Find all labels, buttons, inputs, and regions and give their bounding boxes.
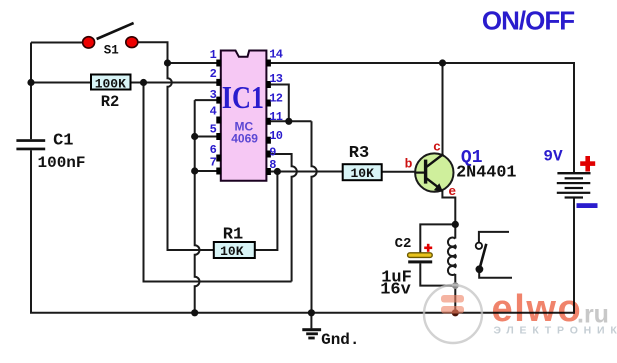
svg-text:13: 13 xyxy=(269,72,282,86)
wire pin 3 lead xyxy=(195,99,217,101)
wire relay coil top lead xyxy=(454,224,456,238)
capacitor C2 plus sign xyxy=(424,244,432,252)
wire pin 11 lead xyxy=(271,120,312,122)
wire relay contact bottom terminal xyxy=(479,273,512,278)
capacitor C2 negative plate xyxy=(408,260,432,263)
svg-text:8: 8 xyxy=(269,158,276,172)
node relay coil bottom / C2 (gray) xyxy=(452,282,459,289)
wire pin 13 lead down to pin 11 node xyxy=(271,85,289,122)
relay coil xyxy=(448,238,456,276)
wire relay coil bottom lead to ground rail xyxy=(454,274,456,313)
op-amp IC1 body (hex inverter MC4069) xyxy=(221,51,267,181)
relay contact lever xyxy=(480,244,487,269)
transistor Q1 base bar xyxy=(424,160,427,184)
wire pin 11 vertical with hop down to ground rail xyxy=(312,121,317,312)
watermark logo bars xyxy=(441,295,464,314)
pin number labels right 14-8 xyxy=(269,48,282,173)
node collector on top rail xyxy=(439,59,446,66)
wire S1 right lead to corner down to node A xyxy=(138,42,168,63)
transistor Q1 body xyxy=(415,153,453,191)
svg-text:C2: C2 xyxy=(395,236,412,252)
watermark logo circle xyxy=(424,285,482,343)
svg-text:C1: C1 xyxy=(53,132,73,151)
battery plus sign xyxy=(580,156,595,172)
svg-text:3: 3 xyxy=(210,88,217,102)
svg-text:12: 12 xyxy=(269,92,282,106)
node ground rail at ground symbol xyxy=(308,309,315,316)
wire pin 7 lead xyxy=(195,170,217,172)
node R2 right wire xyxy=(140,79,147,86)
wire pin 8 row to R3 xyxy=(271,171,343,173)
svg-text:7: 7 xyxy=(210,156,217,170)
wire top rail (pin 14 to battery) xyxy=(271,62,575,64)
wire R1 right lead up to pin 8 node xyxy=(255,172,278,251)
wire S1 vertical drop with hop over R2 wire, then to R1 left xyxy=(168,63,214,250)
svg-text:IC1: IC1 xyxy=(222,80,264,115)
svg-text:2N4401: 2N4401 xyxy=(456,164,516,183)
wire pin 9 lead and vertical with hop, to node row xyxy=(271,154,297,282)
capacitor C2 positive plate xyxy=(408,253,433,258)
wire left rail upper (S1 left to C1 top) xyxy=(30,43,32,140)
svg-text:100K: 100K xyxy=(95,76,126,91)
wire S1 left lead xyxy=(31,42,84,44)
wire C2 branch top xyxy=(420,224,455,252)
capacitor C1 plates xyxy=(16,139,45,150)
svg-text:ЭЛЕКТРОНИКА: ЭЛЕКТРОНИКА xyxy=(494,325,617,337)
node ground rail at pins357 bus xyxy=(191,309,198,316)
svg-text:b: b xyxy=(405,156,413,171)
node emitter / relay / C2 xyxy=(452,221,459,228)
transistor Q1 base lead xyxy=(416,172,425,174)
wire left rail lower (C1 bottom to ground rail corner) xyxy=(30,150,32,313)
resistor R1 body xyxy=(214,242,255,258)
wire R2 left lead xyxy=(31,82,91,84)
wire node A to IC pin 1 xyxy=(168,62,217,64)
node S1 to pin1 xyxy=(164,59,171,66)
wire R2 right lead to IC pin 2 xyxy=(131,82,217,84)
wire bottom ground rail xyxy=(30,312,574,314)
pin number labels left 1-7 xyxy=(210,48,217,170)
wire R3 right lead to transistor base xyxy=(382,171,416,173)
wire C2 branch bottom xyxy=(420,263,455,285)
svg-text:5: 5 xyxy=(210,122,217,136)
wire emitter down-right to relay node xyxy=(442,190,455,225)
node ground rail at relay branch (tinted by watermark) xyxy=(452,309,459,316)
svg-text:1: 1 xyxy=(210,48,217,62)
IC1 pin stubs left pins 1-7 xyxy=(216,60,221,175)
svg-text:4069: 4069 xyxy=(231,132,258,146)
wire collector from top rail node down to Q1 xyxy=(442,63,444,156)
svg-text:c: c xyxy=(433,139,441,154)
svg-text:16v: 16v xyxy=(380,281,411,300)
ground symbol bars xyxy=(302,328,321,339)
IC1 pin stubs right pins 14-8 xyxy=(266,60,271,176)
wire pins 3-5-7 vertical bus with two hops, down to ground rail xyxy=(195,100,200,313)
svg-text:S1: S1 xyxy=(104,44,119,58)
node pin 8 / R1 xyxy=(274,168,281,175)
node pin 5 xyxy=(191,133,198,140)
svg-text:e: e xyxy=(448,184,456,199)
svg-text:10K: 10K xyxy=(350,166,374,181)
switch S1 left contact xyxy=(83,37,95,48)
svg-text:4: 4 xyxy=(210,104,217,118)
svg-text:9V: 9V xyxy=(543,148,563,166)
wire right rail lower (ground rail to battery minus) xyxy=(573,198,575,314)
svg-text:ON/OFF: ON/OFF xyxy=(482,6,574,36)
wire ground stub xyxy=(310,313,312,329)
battery B1 plates xyxy=(557,172,591,199)
resistor R3 body xyxy=(343,164,382,180)
transistor Q1 emitter stroke with arrow xyxy=(427,178,439,187)
svg-text:R3: R3 xyxy=(349,144,369,163)
switch S1 lever xyxy=(97,23,134,39)
battery minus sign xyxy=(577,203,598,208)
node junction dots xyxy=(27,59,459,316)
node pin 7 xyxy=(191,167,198,174)
wire right rail upper (battery plus up to top rail corner) xyxy=(573,63,575,172)
relay contact pole circle xyxy=(476,243,482,249)
svg-text:10K: 10K xyxy=(220,244,244,259)
wire relay contact top terminal xyxy=(479,232,509,243)
svg-text:10: 10 xyxy=(269,129,282,143)
relay contact moving dot xyxy=(476,265,484,273)
svg-text:11: 11 xyxy=(269,110,282,124)
node R2 left / C1 / left rail xyxy=(27,79,34,86)
resistor R2 body xyxy=(91,75,131,90)
svg-text:2: 2 xyxy=(210,67,217,81)
svg-text:Gnd.: Gnd. xyxy=(321,331,359,349)
transistor Q1 collector stroke xyxy=(427,154,444,167)
node pin 13-11 xyxy=(285,118,292,125)
wire node B drop from R2 wire down and right to pin9 vertical xyxy=(144,83,292,282)
wire pin 5 lead xyxy=(195,136,217,138)
svg-text:100nF: 100nF xyxy=(37,154,85,172)
svg-text:14: 14 xyxy=(269,48,282,62)
svg-text:R2: R2 xyxy=(101,93,120,111)
switch S1 right contact xyxy=(126,37,138,48)
svg-text:R1: R1 xyxy=(223,225,243,244)
